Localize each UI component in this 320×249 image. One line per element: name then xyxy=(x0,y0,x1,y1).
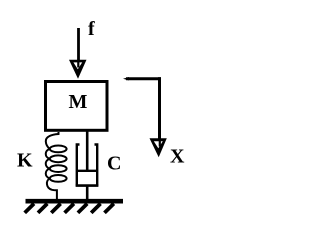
force arrow f shaft xyxy=(77,28,80,62)
ground hatch 6 xyxy=(91,204,100,213)
ground hatch 3 xyxy=(51,204,60,213)
svg-text:f: f xyxy=(88,18,95,40)
svg-text:X: X xyxy=(170,146,185,168)
spring K coil loop 2 xyxy=(50,155,67,162)
force arrowhead xyxy=(69,60,87,79)
damper C cylinder right wall xyxy=(95,145,98,186)
ground line xyxy=(26,199,124,204)
spring K coil loop 4 xyxy=(50,175,67,182)
displacement X horizontal line xyxy=(123,77,129,80)
damper C piston rod (upper) xyxy=(86,131,89,171)
ground hatch 5 xyxy=(78,204,87,213)
damper C cylinder left wall xyxy=(77,145,80,186)
damper C cylinder bottom xyxy=(76,184,99,187)
displacement X arrowhead xyxy=(150,138,167,157)
damper C piston plate xyxy=(76,170,98,172)
ground hatch 1 xyxy=(25,204,34,213)
ground hatch 4 xyxy=(65,204,74,213)
spring K left arc 1 xyxy=(46,149,50,159)
ground hatch 2 xyxy=(38,204,47,213)
spring K bottom hook xyxy=(47,178,57,199)
spring K coil loop 1 xyxy=(50,146,67,153)
svg-text:K: K xyxy=(17,150,33,172)
damper C lower rod xyxy=(86,186,89,200)
svg-text:M: M xyxy=(69,91,88,113)
spring K left arc 3 xyxy=(46,169,50,179)
spring K top hook xyxy=(46,132,59,149)
svg-text:C: C xyxy=(107,153,121,175)
spring K coil loop 3 xyxy=(50,165,67,172)
displacement X vertical line xyxy=(158,77,161,140)
mass M box xyxy=(46,82,108,131)
spring K left arc 2 xyxy=(46,159,50,169)
ground hatch 7 xyxy=(105,204,114,213)
